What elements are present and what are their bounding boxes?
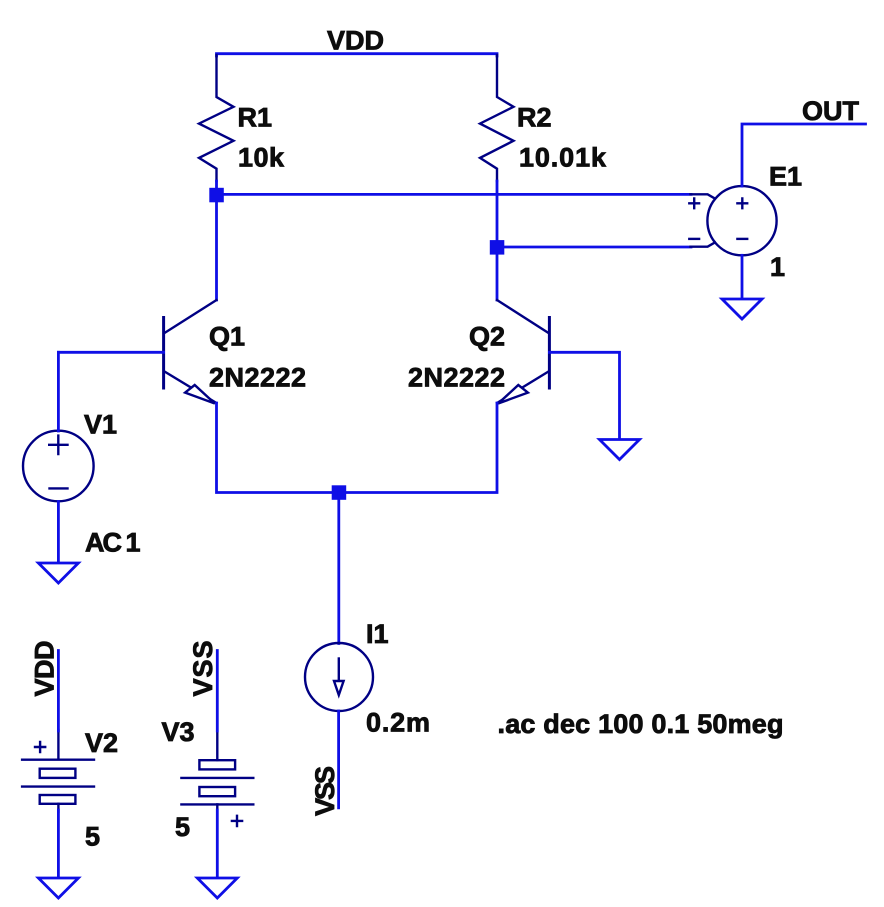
junction node A (209, 188, 224, 203)
wire VSS stub to V3 (216, 651, 219, 732)
wire node A to E1 + input (217, 193, 692, 196)
svg-text:V1: V1 (84, 410, 117, 440)
svg-text:1: 1 (770, 252, 785, 282)
svg-text:2N2222: 2N2222 (209, 363, 306, 393)
svg-text:VDD: VDD (30, 641, 60, 697)
wire E1 bottom to ground (741, 255, 744, 298)
current source I1 (305, 643, 373, 711)
wire VDD stub to V2 (57, 651, 60, 732)
wire V3 bottom to ground (216, 810, 219, 878)
wire VDD rail from R1 top to R2 top (217, 54, 498, 56)
svg-text:I1: I1 (366, 619, 389, 649)
svg-text:2N2222: 2N2222 (408, 363, 505, 393)
junction node B (490, 240, 505, 255)
voltage source V2 (battery) (22, 730, 94, 812)
svg-text:0.2m: 0.2m (366, 708, 430, 738)
svg-text:.ac dec 100 0.1 50meg: .ac dec 100 0.1 50meg (498, 709, 784, 739)
svg-text:E1: E1 (769, 162, 802, 192)
voltage source V1 (23, 431, 94, 502)
wire I1 bottom to VSS stub (337, 711, 340, 808)
wire node B to E1 - input (497, 246, 691, 249)
wire V2 bottom to ground (57, 810, 60, 878)
svg-text:R2: R2 (517, 103, 552, 133)
svg-text:10.01k: 10.01k (519, 143, 607, 173)
junction tail node (332, 485, 347, 500)
wire Q2 base to ground (549, 352, 619, 439)
ground (Q2 base) (600, 440, 640, 460)
wire Q1 emitter down and to tail node (217, 403, 498, 493)
ground (V2) (38, 878, 78, 898)
svg-text:10k: 10k (238, 143, 285, 173)
wire V1 top to Q1 base (57, 352, 60, 431)
ground (V3) (197, 878, 237, 898)
resistor R2 (480, 55, 514, 181)
svg-text:V2: V2 (85, 728, 118, 758)
transistor Q1 (164, 300, 217, 404)
svg-text:Q2: Q2 (469, 322, 505, 352)
svg-text:R1: R1 (238, 103, 273, 133)
svg-text:VSS: VSS (310, 766, 340, 816)
transistor Q2 (mirrored) (497, 300, 549, 404)
voltage source V3 (battery, flipped) (181, 730, 253, 826)
vcvs E1 (689, 186, 776, 255)
svg-text:5: 5 (85, 822, 100, 852)
wire R2 bottom to node B and down to Q2 collector (496, 181, 499, 300)
ground (E1) (722, 299, 762, 319)
svg-text:AC 1: AC 1 (85, 528, 141, 558)
svg-text:Q1: Q1 (209, 322, 245, 352)
svg-text:VDD: VDD (327, 26, 384, 56)
wire V1 bottom to ground (57, 502, 60, 563)
svg-text:OUT: OUT (802, 96, 860, 126)
wire tail node to I1 (337, 493, 340, 644)
wire R1 bottom to node A and down to Q1 collector (215, 181, 218, 300)
wire E1 output to OUT (742, 124, 866, 186)
resistor R1 (199, 55, 234, 181)
ground (V1) (38, 563, 78, 583)
svg-text:5: 5 (175, 812, 190, 842)
svg-text:VSS: VSS (188, 641, 218, 697)
svg-text:V3: V3 (161, 717, 194, 747)
wire Q1 base to V1 (58, 351, 163, 354)
